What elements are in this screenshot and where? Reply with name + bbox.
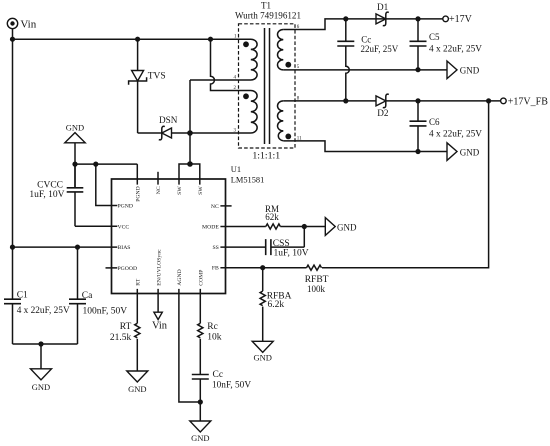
svg-text:Cc: Cc bbox=[361, 34, 371, 44]
svg-text:RT: RT bbox=[120, 322, 132, 332]
svg-text:GND: GND bbox=[32, 382, 50, 392]
svg-text:C1: C1 bbox=[17, 291, 28, 301]
svg-text:DSN: DSN bbox=[159, 115, 178, 125]
svg-text:SS: SS bbox=[212, 245, 218, 251]
svg-text:T1: T1 bbox=[261, 0, 271, 10]
svg-text:1uF, 10V: 1uF, 10V bbox=[274, 249, 309, 259]
svg-text:GND: GND bbox=[253, 353, 271, 363]
svg-text:NC: NC bbox=[211, 204, 219, 210]
svg-text:GND: GND bbox=[66, 123, 84, 133]
svg-text:BIAS: BIAS bbox=[118, 245, 131, 251]
svg-text:Rc: Rc bbox=[207, 322, 218, 332]
svg-text:GND: GND bbox=[460, 66, 480, 76]
svg-text:Vin: Vin bbox=[20, 19, 36, 31]
svg-text:6.2k: 6.2k bbox=[268, 300, 285, 310]
svg-text:GND: GND bbox=[460, 147, 480, 157]
svg-text:22uF, 25V: 22uF, 25V bbox=[361, 44, 399, 54]
svg-text:SW: SW bbox=[198, 186, 204, 195]
svg-text:AGND: AGND bbox=[177, 269, 183, 285]
svg-text:62k: 62k bbox=[265, 212, 279, 222]
svg-text:4 x 22uF, 25V: 4 x 22uF, 25V bbox=[429, 129, 482, 139]
svg-text:PGND: PGND bbox=[136, 186, 142, 202]
svg-text:Cc: Cc bbox=[213, 370, 224, 380]
svg-text:Wurth 749196121: Wurth 749196121 bbox=[235, 11, 301, 21]
svg-text:100k: 100k bbox=[307, 284, 326, 294]
svg-text:1uF, 10V: 1uF, 10V bbox=[29, 190, 64, 200]
svg-text:COMP: COMP bbox=[199, 270, 205, 286]
svg-text:TVS: TVS bbox=[148, 71, 166, 81]
svg-text:PGOOD: PGOOD bbox=[118, 266, 138, 272]
svg-text:GND: GND bbox=[128, 384, 146, 394]
svg-text:FB: FB bbox=[212, 266, 219, 272]
svg-text:10k: 10k bbox=[207, 333, 222, 343]
svg-text:C5: C5 bbox=[429, 32, 440, 42]
svg-text:+17V_FB: +17V_FB bbox=[508, 97, 548, 108]
svg-text:C6: C6 bbox=[429, 117, 440, 127]
svg-text:GND: GND bbox=[337, 222, 357, 232]
svg-text:D2: D2 bbox=[377, 108, 389, 118]
svg-text:10nF, 50V: 10nF, 50V bbox=[212, 380, 251, 390]
svg-text:MODE: MODE bbox=[202, 225, 219, 231]
svg-text:4 x 22uF, 25V: 4 x 22uF, 25V bbox=[429, 45, 482, 55]
svg-text:RT: RT bbox=[136, 278, 142, 285]
svg-text:PGND: PGND bbox=[118, 204, 134, 210]
svg-text:LM51581: LM51581 bbox=[231, 175, 264, 184]
svg-text:+17V: +17V bbox=[449, 14, 473, 25]
svg-text:1:1:1:1: 1:1:1:1 bbox=[252, 151, 280, 162]
svg-text:EN/UVLOSync: EN/UVLOSync bbox=[156, 249, 162, 286]
svg-text:4 x 22uF, 25V: 4 x 22uF, 25V bbox=[17, 306, 70, 316]
svg-text:U1: U1 bbox=[231, 165, 241, 174]
svg-text:VCC: VCC bbox=[118, 224, 130, 230]
svg-text:D1: D1 bbox=[377, 2, 389, 12]
svg-text:Ca: Ca bbox=[82, 291, 93, 301]
svg-text:Vin: Vin bbox=[152, 320, 168, 331]
svg-text:21.5k: 21.5k bbox=[110, 333, 132, 343]
svg-text:NC: NC bbox=[156, 186, 162, 194]
svg-text:11: 11 bbox=[297, 136, 302, 141]
svg-text:SW: SW bbox=[177, 186, 183, 195]
svg-text:100nF, 50V: 100nF, 50V bbox=[83, 307, 128, 317]
svg-text:CVCC: CVCC bbox=[37, 180, 63, 190]
svg-text:GND: GND bbox=[191, 433, 209, 443]
